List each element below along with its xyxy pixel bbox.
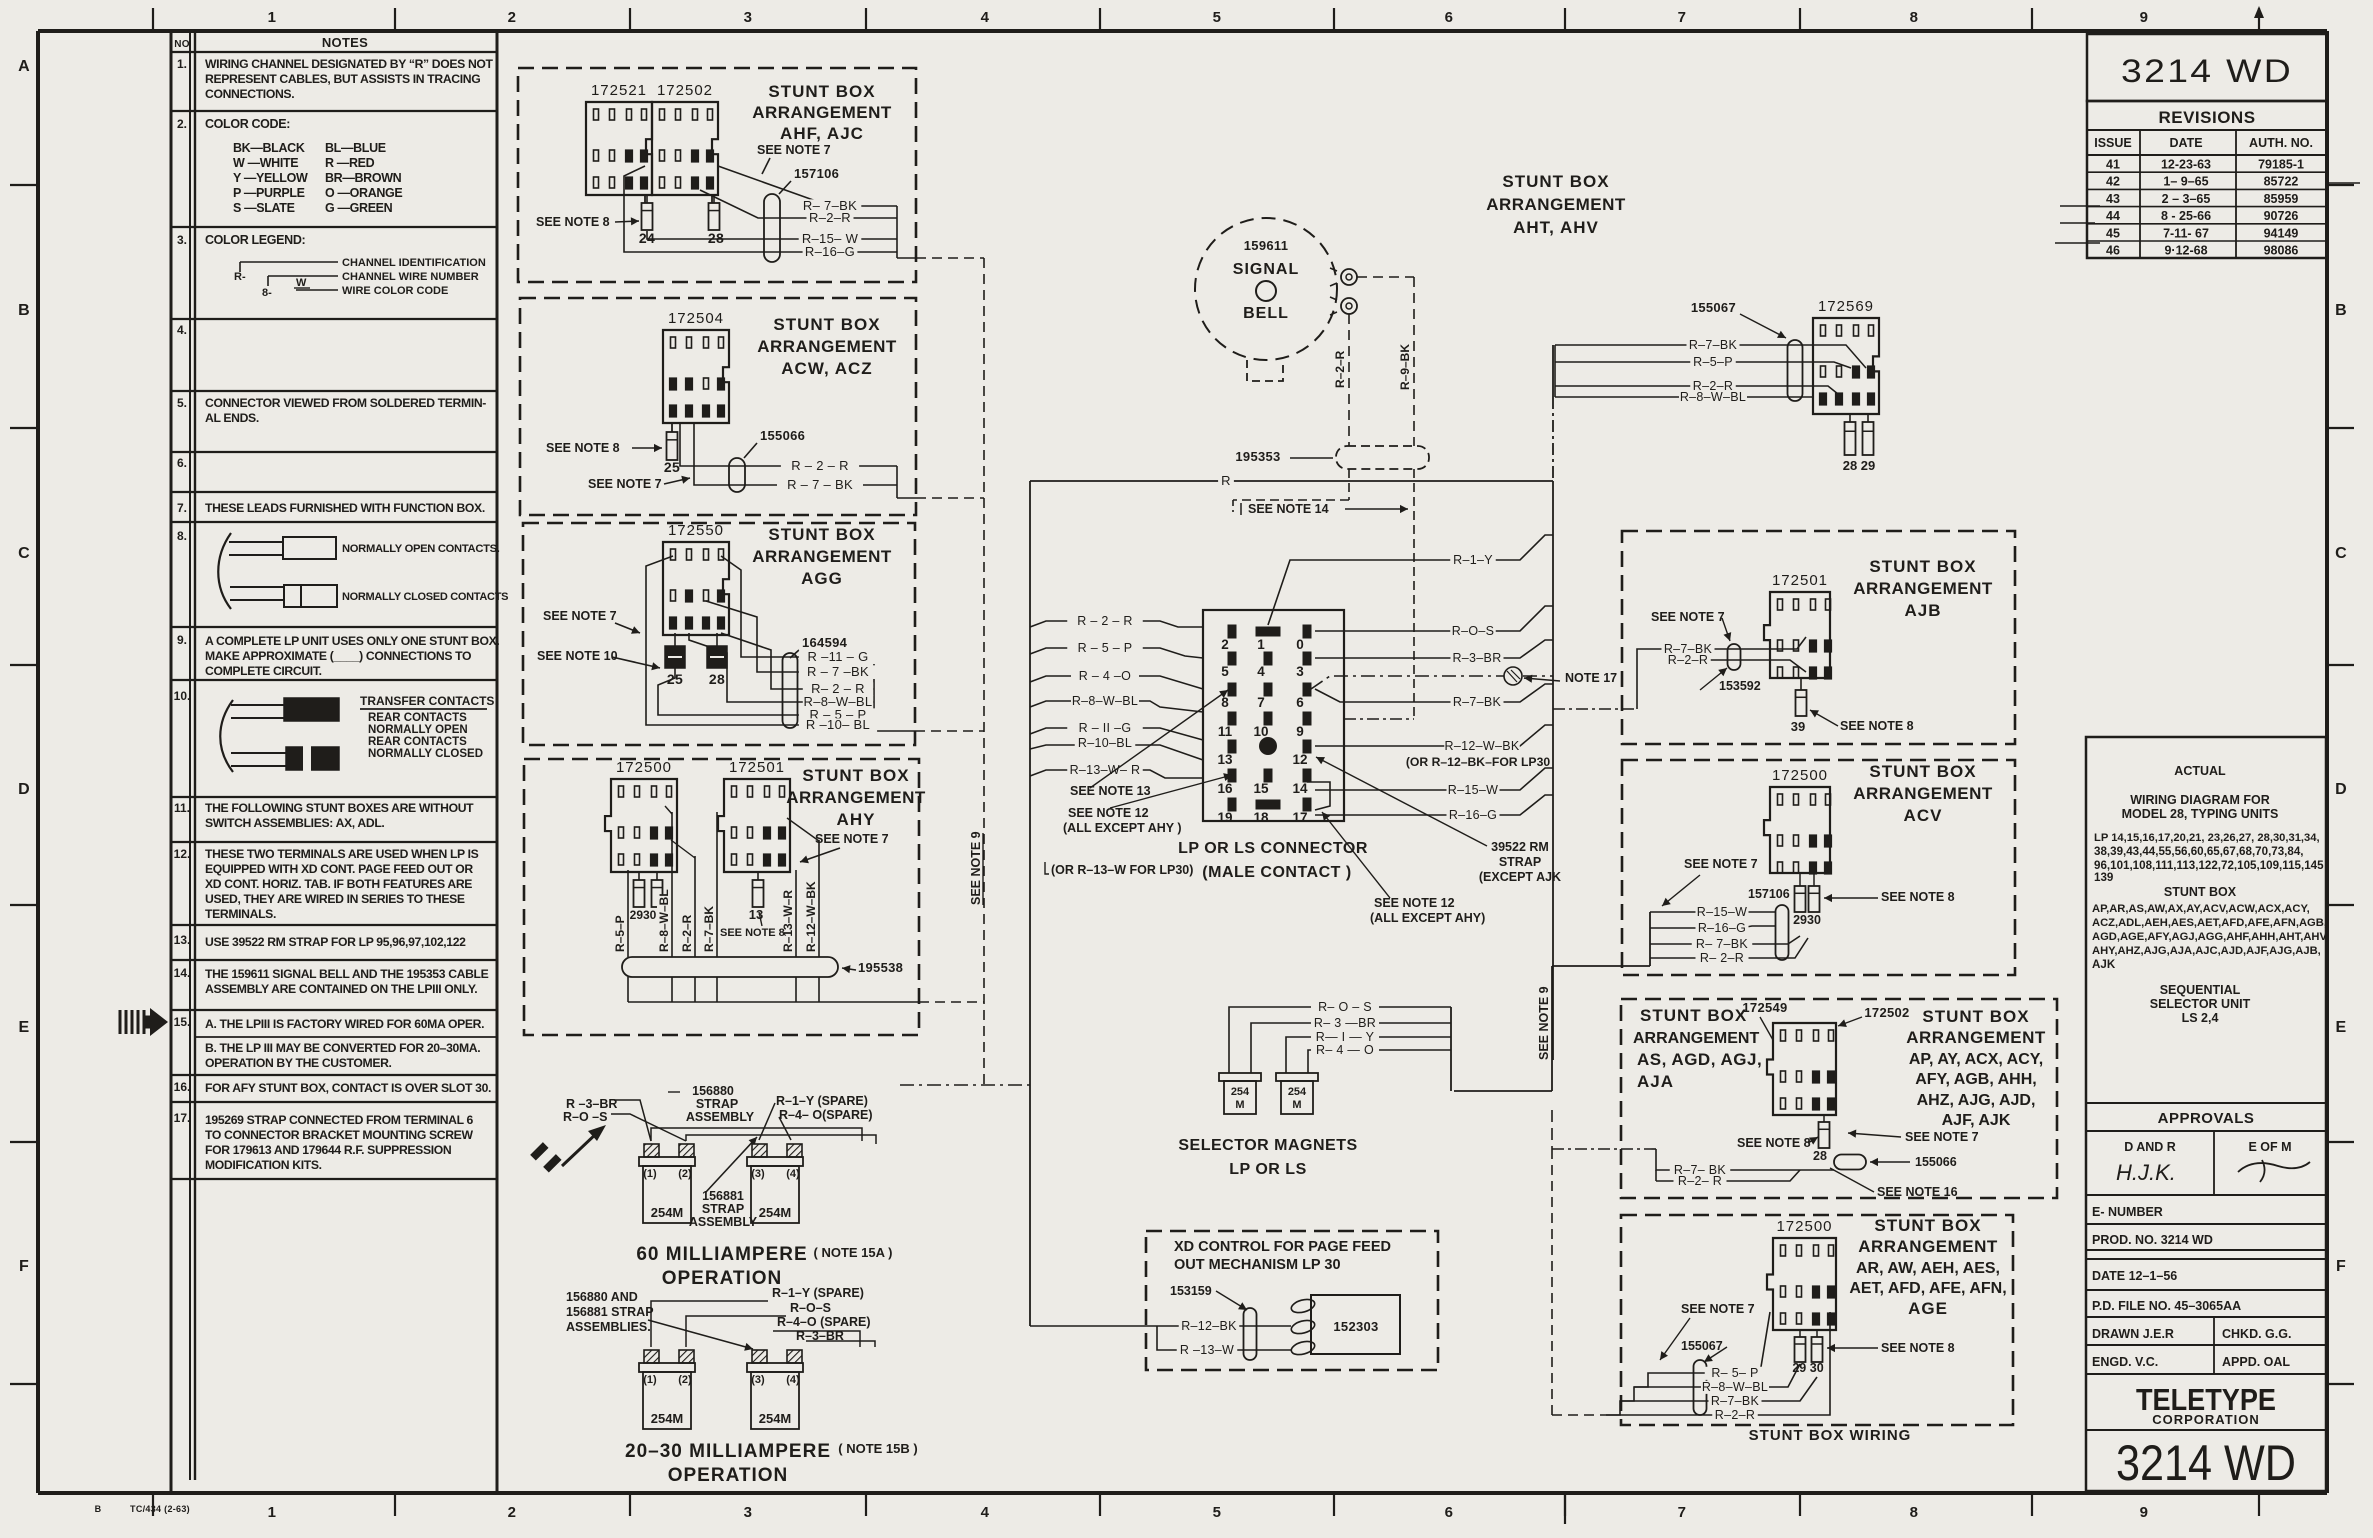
svg-text:SEE NOTE 8: SEE NOTE 8 [1881,890,1955,904]
wire R-16-G [1315,795,1553,822]
see note 16 leader (AS) [1830,1168,1958,1199]
wire label R-5-P (AGG) [799,708,877,722]
svg-text:17: 17 [1292,810,1307,825]
svg-text:5: 5 [1221,664,1229,679]
wire R-3-BR [1315,640,1553,665]
svg-text:CHKD. G.G.: CHKD. G.G. [2222,1327,2291,1341]
svg-text:2930: 2930 [1793,913,1821,927]
svg-text:ENGD. V.C.: ENGD. V.C. [2092,1355,2158,1369]
svg-text:254M: 254M [651,1205,684,1220]
svg-text:2: 2 [1221,637,1229,652]
svg-text:5: 5 [1213,9,1222,26]
svg-text:A COMPLETE LP UNIT USES ONLY O: A COMPLETE LP UNIT USES ONLY ONE STUNT B… [205,634,499,648]
dashed box stunt box arrangement ACV [1622,760,2015,975]
svg-text:11.: 11. [174,801,190,815]
svg-text:2: 2 [508,1504,517,1521]
wire label R-7-BK (ACV) [1692,938,1753,951]
60 MA title [636,1244,892,1289]
svg-text:SELECTOR UNIT: SELECTOR UNIT [2150,997,2251,1011]
svg-text:THESE LEADS FURNISHED WITH FUN: THESE LEADS FURNISHED WITH FUNCTION BOX. [205,501,485,515]
svg-text:DATE 12–1–56: DATE 12–1–56 [2092,1269,2177,1283]
svg-text:7-11- 67: 7-11- 67 [2163,226,2209,240]
svg-text:3: 3 [744,9,753,26]
wire label R-2-R (172569) [1690,380,1736,393]
svg-text:172500: 172500 [616,759,672,776]
terminal 24 [639,195,655,246]
svg-text:R–5–P: R–5–P [613,915,627,952]
svg-text:R–16–G: R–16–G [805,244,855,259]
dashed box stunt box arrangement AJB [1622,531,2015,744]
svg-text:R– 4 — O: R– 4 — O [1316,1043,1374,1057]
sleeve 153159 [1170,1284,1257,1360]
svg-text:B. THE LP III MAY BE CONVERTED: B. THE LP III MAY BE CONVERTED FOR 20–30… [205,1041,480,1055]
svg-text:B: B [2335,302,2347,319]
svg-text:COLOR LEGEND:: COLOR LEGEND: [205,233,305,247]
svg-text:R –11 – G: R –11 – G [808,649,869,664]
see note 7 leader (ACV) [1662,857,1758,906]
svg-text:M: M [1292,1099,1301,1111]
svg-text:OPERATION: OPERATION [668,1465,789,1486]
svg-text:172501: 172501 [1772,572,1828,589]
svg-text:R–12–W–BK: R–12–W–BK [1445,739,1520,753]
svg-text:R —RED: R —RED [325,156,375,170]
note (OR R-13-W FOR LP30) [1045,862,1193,877]
svg-text:R – 4 –O: R – 4 –O [1079,669,1131,683]
svg-text:39: 39 [1791,719,1805,734]
title AHY [786,766,926,829]
wire label R – II –G [1067,722,1143,735]
svg-text:SEE NOTE 8: SEE NOTE 8 [1881,1341,1955,1355]
svg-text:R–16–G: R–16–G [1449,808,1497,822]
wire label R-2-R (AJB) [1665,654,1711,667]
dashed wires below 195353 [1233,469,1414,719]
see note 8 leader (AJB) [1810,710,1914,733]
svg-text:SEE NOTE 7: SEE NOTE 7 [588,477,662,491]
approvals section [2086,1103,2326,1195]
revisions table [2055,101,2360,258]
lp pin14-17 jog wire [1307,782,1330,810]
wire label R-15-W (AHF) [799,232,862,246]
svg-text:NOTE 17: NOTE 17 [1565,671,1617,685]
svg-text:NORMALLY CLOSED: NORMALLY CLOSED [368,748,483,760]
svg-text:8 - 25-66: 8 - 25-66 [2161,209,2211,223]
20-30 MA labels 156880 and 156881 strap assemblies [566,1290,654,1334]
svg-text:85959: 85959 [2264,192,2299,206]
svg-text:8: 8 [1910,9,1919,26]
wire R-O-S [1315,606,1553,638]
svg-text:R–4–O (SPARE): R–4–O (SPARE) [777,1315,871,1329]
svg-text:CONNECTOR VIEWED FROM SOLDE: CONNECTOR VIEWED FROM SOLDERED TERMIN- [205,396,486,410]
svg-text:155067: 155067 [1681,1339,1723,1353]
svg-text:( NOTE 15A ): ( NOTE 15A ) [814,1245,893,1260]
wire label R-2-R (AS) [1674,1175,1727,1188]
connector 172502 [652,82,718,195]
svg-text:28: 28 [1813,1149,1827,1163]
svg-text:ARRANGEMENT: ARRANGEMENT [786,788,926,807]
see note 8 leader (ACV) [1824,890,1955,904]
connector 172501 (AHY) [718,759,790,872]
svg-text:WIRING CHANNEL DESIGNATED BY “: WIRING CHANNEL DESIGNATED BY “R” DOES NO… [205,57,494,71]
sleeve 153592 [1700,644,1761,693]
svg-text:ARRANGEMENT: ARRANGEMENT [1853,579,1993,598]
svg-text:STRAP: STRAP [696,1097,738,1111]
svg-text:153592: 153592 [1719,679,1761,693]
cable assembly 195353 [1235,446,1429,469]
svg-text:STUNT BOX: STUNT BOX [773,315,880,334]
svg-text:155067: 155067 [1691,300,1736,315]
see note 8 leader (ACW) [546,441,662,455]
svg-text:172550: 172550 [668,522,724,539]
title ACW ACZ [757,315,897,378]
svg-text:AJB: AJB [1904,601,1941,620]
wire label R-2-R (ACW) [781,459,859,473]
engd appd row [2086,1345,2326,1369]
svg-text:155066: 155066 [1915,1155,1957,1169]
svg-text:195353: 195353 [1235,449,1280,464]
rotated wire labels AHY [613,881,818,952]
e-number row [2086,1195,2326,1219]
wire R-1-Y [1268,535,1553,625]
dashed box stunt box arrangement AHY [524,759,919,1035]
wire label R-8-W-BL (AGG) [803,695,873,709]
svg-text:9·12-68: 9·12-68 [2164,244,2207,258]
svg-text:152303: 152303 [1333,1319,1378,1334]
svg-text:S —SLATE: S —SLATE [233,201,295,215]
svg-text:ARRANGEMENT: ARRANGEMENT [757,337,897,356]
title AR AW AEH [1849,1216,2006,1318]
svg-text:STUNT BOX: STUNT BOX [1502,172,1609,191]
svg-text:LS 2,4: LS 2,4 [2182,1011,2219,1025]
svg-text:6.: 6. [177,456,187,470]
20-30 MA wires [648,1301,875,1351]
title AJB [1853,557,1993,620]
svg-text:CHANNEL WIRE NUMBER: CHANNEL WIRE NUMBER [342,271,479,283]
60 MA strap wires [611,1100,876,1192]
svg-text:TRANSFER CONTACTS: TRANSFER CONTACTS [360,694,494,708]
svg-text:NORMALLY OPEN CONTACTS.: NORMALLY OPEN CONTACTS. [342,543,500,555]
svg-text:SEE NOTE 7: SEE NOTE 7 [815,832,889,846]
svg-text:STUNT BOX: STUNT BOX [768,82,875,101]
svg-text:SEQUENTIAL: SEQUENTIAL [2160,983,2241,997]
svg-text:R–10–BL: R–10–BL [1078,736,1132,750]
svg-text:(OR R–13–W FOR LP30): (OR R–13–W FOR LP30) [1051,863,1193,877]
svg-text:R –13–W: R –13–W [1180,1343,1234,1357]
teletype corporation [2086,1374,2326,1427]
svg-text:SEE NOTE 8: SEE NOTE 8 [720,927,785,939]
wires AJB [1553,637,1806,709]
right vertical channel bus [1552,345,1554,1060]
svg-text:XD CONTROL FOR PAGE FEED: XD CONTROL FOR PAGE FEED [1174,1239,1391,1255]
svg-text:17.: 17. [174,1111,191,1125]
change arrow symbol [530,1125,606,1173]
svg-text:NORMALLY CLOSED CONTACTS: NORMALLY CLOSED CONTACTS [342,591,508,603]
svg-text:AGE: AGE [1908,1299,1948,1318]
see note 13 leader [1070,690,1228,798]
svg-text:NOTES: NOTES [322,35,368,50]
svg-text:0: 0 [1296,637,1304,652]
svg-text:3.: 3. [177,233,187,247]
svg-text:12-23-63: 12-23-63 [2161,158,2211,172]
svg-text:ARRANGEMENT: ARRANGEMENT [1853,784,1993,803]
note 17 strap dash-dot [1311,667,1617,689]
svg-text:R–9–BK: R–9–BK [1398,344,1412,390]
prod no row [2086,1224,2326,1247]
svg-text:38,39,43,44,55,56,60,65,67,68,: 38,39,43,44,55,56,60,65,67,68,70,73,84, [2094,845,2304,858]
svg-text:AJK: AJK [2092,958,2116,971]
svg-text:D: D [18,781,30,798]
svg-text:156880 AND: 156880 AND [566,1290,638,1304]
svg-text:CONNECTIONS.: CONNECTIONS. [205,87,294,101]
svg-text:C: C [2335,545,2347,562]
svg-text:AUTH. NO.: AUTH. NO. [2249,136,2313,150]
svg-text:R–12–BK: R–12–BK [1181,1319,1237,1333]
svg-text:79185-1: 79185-1 [2258,158,2304,172]
svg-text:4: 4 [1257,664,1265,679]
svg-text:NO: NO [174,39,190,50]
selector wire labels [1311,1001,1379,1014]
svg-text:ARRANGEMENT: ARRANGEMENT [1906,1028,2046,1047]
svg-text:ACTUAL: ACTUAL [2174,764,2226,778]
svg-text:WIRING DIAGRAM FOR: WIRING DIAGRAM FOR [2130,793,2270,807]
svg-text:5: 5 [1213,1504,1222,1521]
svg-text:R – 2 – R: R – 2 – R [1077,614,1133,628]
20-30 MA 254M unit 1-2 [644,1350,659,1363]
label 172549 [1742,1000,1787,1040]
svg-text:2930: 2930 [630,908,657,922]
svg-text:25: 25 [664,459,680,475]
wire label R-7-BK (172569) [1687,339,1740,352]
svg-text:THE 159611 SIGNAL BELL AND THE: THE 159611 SIGNAL BELL AND THE 195353 CA… [205,967,489,981]
wire label R-10-BL (AGG) [799,718,877,732]
svg-text:172500: 172500 [1772,767,1828,784]
svg-text:AS, AGD, AGJ,: AS, AGD, AGJ, [1637,1050,1762,1069]
svg-text:A. THE LPIII IS FACTORY WIRED: A. THE LPIII IS FACTORY WIRED FOR 60MA O… [205,1017,484,1031]
svg-text:(1): (1) [643,1168,657,1180]
connector 172549/172502 (AS) [1767,1023,1836,1115]
wire label R-7-BK (AGG) [799,665,877,679]
wire label R-7-BK (AS) [1670,1164,1731,1177]
svg-text:20–30 MILLIAMPERE: 20–30 MILLIAMPERE [625,1441,831,1462]
bell wire R-9-BK dashed [1357,277,1414,446]
svg-text:SEE NOTE 12: SEE NOTE 12 [1068,806,1149,820]
wire label R-7-BK (AJB) [1662,643,1715,656]
svg-text:14: 14 [1292,781,1308,796]
svg-text:DRAWN J.E.R: DRAWN J.E.R [2092,1327,2174,1341]
svg-text:7.: 7. [177,501,187,515]
svg-text:8-: 8- [262,287,272,299]
svg-text:AR, AW, AEH, AES,: AR, AW, AEH, AES, [1856,1260,2000,1277]
svg-text:AHF, AJC: AHF, AJC [780,124,864,143]
selector magnets caption [1178,1137,1357,1178]
svg-text:BK—BLACK: BK—BLACK [233,141,305,155]
svg-text:4.: 4. [177,323,187,337]
title ACV [1853,762,1993,825]
svg-text:172549: 172549 [1742,1000,1787,1015]
svg-text:TO CONNECTOR BRACKET MOUNTING: TO CONNECTOR BRACKET MOUNTING SCREW [205,1128,473,1142]
svg-text:SWITCH ASSEMBLIES: AX, ADL.: SWITCH ASSEMBLIES: AX, ADL. [205,816,384,830]
wires AS [1552,1110,1834,1181]
svg-text:R–7–BK: R–7–BK [702,906,716,952]
svg-text:LP OR LS: LP OR LS [1229,1161,1307,1178]
svg-text:MAKE APPROXIMATE (____) CONNEC: MAKE APPROXIMATE (____) CONNECTIONS TO [205,649,471,663]
svg-text:E: E [2336,1019,2347,1036]
svg-text:R–2–R: R–2–R [680,914,694,952]
svg-text:R –3–BR: R –3–BR [566,1097,617,1111]
terminal 28 [708,195,724,246]
wire R-7-BK [1315,684,1553,709]
svg-text:B: B [95,1504,102,1514]
svg-text:APPD. OAL: APPD. OAL [2222,1355,2290,1369]
terminal 29 (AHY) [634,872,645,907]
bell terminal upper [1330,268,1357,286]
wires 172569 internal diagonals [1813,345,1866,394]
svg-text:(2): (2) [678,1168,692,1180]
svg-text:SEE NOTE 8: SEE NOTE 8 [1737,1136,1811,1150]
svg-text:MODEL 28, TYPING UNITS: MODEL 28, TYPING UNITS [2122,807,2279,821]
see note 8 leader (AHY) [720,912,785,939]
connector 172500 (AHY) [605,759,677,872]
svg-text:(OR R–12–BK–FOR LP30: (OR R–12–BK–FOR LP30 [1406,755,1550,769]
wire label R-15-W (ACV) [1696,906,1749,919]
svg-text:195269 STRAP CONNECTED FROM TE: 195269 STRAP CONNECTED FROM TERMINAL 6 [205,1113,474,1127]
svg-text:139: 139 [2094,871,2114,884]
svg-text:R–4– O(SPARE): R–4– O(SPARE) [779,1108,873,1122]
terminals 29 30 (ACV) [1793,873,1821,927]
cable sleeve 164594 [783,635,848,728]
see note 8 leader (AS) [1737,1136,1818,1150]
svg-text:7: 7 [1678,1504,1687,1521]
svg-text:ARRANGEMENT: ARRANGEMENT [752,547,892,566]
svg-text:REAR CONTACTS: REAR CONTACTS [368,736,467,748]
dashed box stunt box arrangement AS AGD AGJ AJA / AP AY [1621,999,2057,1198]
svg-text:1– 9–65: 1– 9–65 [2163,175,2208,189]
svg-text:90726: 90726 [2264,209,2299,223]
svg-text:TC/434 (2-63): TC/434 (2-63) [130,1504,190,1514]
wire label R-16-G (AHF) [803,245,858,259]
wire label R–10–BL [1075,737,1136,750]
wire label R – 2 – R [1067,615,1143,628]
see note 8 leader (AR) [1827,1341,1955,1355]
svg-text:13: 13 [1217,752,1233,767]
svg-text:Y —YELLOW: Y —YELLOW [233,171,308,185]
svg-text:60 MILLIAMPERE: 60 MILLIAMPERE [636,1244,807,1265]
svg-text:12.: 12. [174,847,191,861]
svg-text:3214 WD: 3214 WD [2121,53,2293,89]
svg-text:DATE: DATE [2169,136,2202,150]
svg-text:SEE NOTE 14: SEE NOTE 14 [1248,502,1329,516]
black terminal 25 (AGG) [665,646,685,687]
svg-text:3: 3 [744,1504,753,1521]
cable sleeve 157106 [764,166,839,262]
title AS AGD AGJ AJA [1633,1006,1762,1091]
svg-text:12: 12 [1292,752,1307,767]
svg-text:ACZ,ADL,AEH,AES,AET,AFD,AFE,AF: ACZ,ADL,AEH,AES,AET,AFD,AFE,AFN,AGB, [2092,917,2327,929]
title AHF AJC [752,82,892,143]
wire label R-7-BK (ACW) [777,478,863,492]
svg-text:R–16–G: R–16–G [1698,921,1746,935]
info box: actual wiring diagram [2086,737,2329,1491]
svg-text:A: A [18,58,30,75]
svg-text:155066: 155066 [760,428,805,443]
drawing number 3214WD (bottom) [2086,1430,2326,1491]
svg-text:STUNT BOX: STUNT BOX [768,525,875,544]
svg-text:R –10– BL: R –10– BL [806,717,870,732]
see note 12 right leader [1322,812,1485,925]
see note 10 leader (AGG) [537,649,660,670]
svg-text:R–8–W–BL: R–8–W–BL [657,889,671,952]
svg-text:98086: 98086 [2264,244,2299,258]
svg-text:R–1–Y (SPARE): R–1–Y (SPARE) [772,1286,864,1300]
svg-text:46: 46 [2106,244,2120,258]
svg-text:STRAP: STRAP [1499,855,1541,869]
see note 7 leader (AGG) [543,609,640,634]
svg-text:13.: 13. [174,933,191,947]
svg-text:SEE NOTE 8: SEE NOTE 8 [536,215,610,229]
60 MA 254M unit 3-4 [752,1144,767,1157]
see note 9 rotated label (left) [969,831,983,905]
svg-text:18: 18 [1253,810,1269,825]
bell wire R-2-R dashed [1333,314,1349,446]
svg-text:SEE NOTE 13: SEE NOTE 13 [1070,784,1151,798]
svg-text:R–13–W– R: R–13–W– R [1070,763,1141,777]
svg-text:R–8–W–BL: R–8–W–BL [1072,694,1138,708]
svg-text:E OF M: E OF M [2248,1140,2291,1154]
svg-text:172501: 172501 [729,759,785,776]
dashed box stunt box arrangement AR AW AEH [1621,1215,2013,1425]
note 10 transfer contacts [220,694,494,772]
signal bell 159611 [1195,218,1337,381]
svg-text:AP, AY, ACX, ACY,: AP, AY, ACX, ACY, [1909,1051,2043,1068]
svg-text:SEE NOTE 9: SEE NOTE 9 [1537,986,1551,1060]
svg-text:R–5–P: R–5–P [1693,355,1733,369]
svg-text:( NOTE 15B ): ( NOTE 15B ) [838,1441,917,1456]
title AP AY ACX ACY [1906,1007,2046,1129]
svg-text:P —PURPLE: P —PURPLE [233,186,305,200]
dashed box XD control [1146,1231,1438,1370]
svg-text:R–13–W–R: R–13–W–R [781,890,795,952]
wire label R-7-BK (AHF) [799,199,862,213]
svg-text:(MALE CONTACT ): (MALE CONTACT ) [1202,864,1351,881]
svg-text:R— I — Y: R— I — Y [1316,1030,1375,1044]
svg-text:CORPORATION: CORPORATION [2152,1412,2260,1427]
vertical channel wires AHY [628,806,819,957]
wires AHY below cable [628,977,919,1002]
wire label R-7-BK (AR) [1709,1395,1762,1408]
svg-text:164594: 164594 [802,635,848,650]
svg-text:R–2– R: R–2– R [1678,1174,1722,1188]
svg-text:156881: 156881 [702,1189,744,1203]
svg-text:SEE NOTE 9: SEE NOTE 9 [969,831,983,905]
svg-text:SEE NOTE 12: SEE NOTE 12 [1374,896,1455,910]
svg-text:AFY, AGB, AHH,: AFY, AGB, AHH, [1915,1071,2036,1088]
60 MA label 156881 strap assembly [689,1189,758,1229]
svg-text:XD CONT. HORIZ. TAB. IF BOTH F: XD CONT. HORIZ. TAB. IF BOTH FEATURES AR… [205,877,472,891]
svg-text:REPRESENT CABLES, BUT ASSISTS: REPRESENT CABLES, BUT ASSISTS IN TRACING [205,72,480,86]
svg-text:94149: 94149 [2264,226,2299,240]
wires ACV [1454,912,1808,1091]
svg-text:REAR CONTACTS: REAR CONTACTS [368,712,467,724]
svg-text:159611: 159611 [1244,238,1288,253]
svg-text:SEE NOTE 16: SEE NOTE 16 [1877,1185,1958,1199]
svg-text:(1): (1) [643,1374,657,1386]
svg-text:AJF, AJK: AJF, AJK [1942,1112,2011,1129]
svg-text:8: 8 [1221,695,1229,710]
svg-text:STUNT BOX: STUNT BOX [1874,1216,1981,1235]
svg-text:1.: 1. [177,57,187,71]
svg-text:43: 43 [2106,192,2120,206]
svg-text:R– 5– P: R– 5– P [1711,1366,1758,1380]
svg-text:85722: 85722 [2264,175,2299,189]
